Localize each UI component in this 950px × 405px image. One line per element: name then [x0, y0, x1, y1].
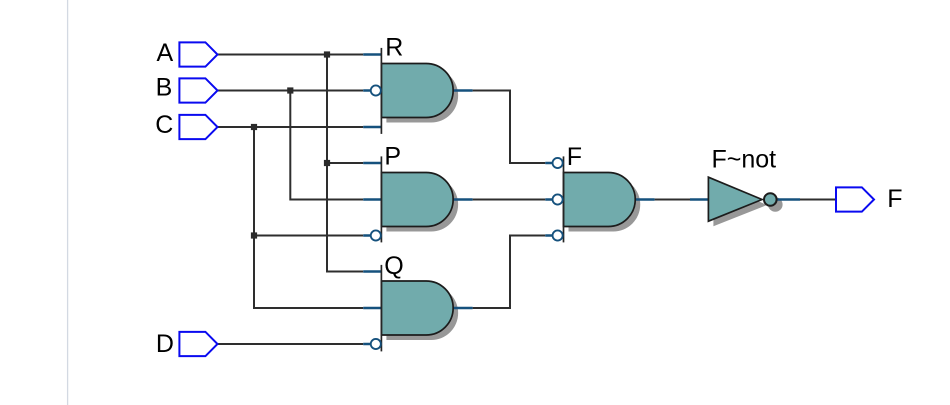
output pin F [836, 187, 874, 211]
port stub Q bot [363, 343, 381, 346]
gate F input bar [563, 156, 565, 242]
port stub F out [635, 198, 654, 201]
port stub P top [363, 162, 381, 165]
svg-text:F: F [887, 185, 902, 213]
wire stub A branch to P top [327, 162, 363, 164]
junction on wire C [251, 124, 257, 130]
svg-text:D: D [156, 330, 174, 358]
port stub F mid [545, 198, 563, 201]
bubble Q bot input [371, 339, 381, 349]
svg-text:Q: Q [384, 252, 403, 280]
shadow of gate F [569, 178, 641, 232]
wire C [218, 126, 364, 128]
wire A [218, 54, 364, 56]
wire stub C branch to P bot [254, 235, 363, 237]
port stub inverter out [777, 198, 800, 201]
svg-text:F~not: F~not [712, 146, 777, 174]
junction C-branch at P bot [251, 232, 257, 238]
port stub P mid [363, 198, 381, 201]
shadow of inverter [713, 182, 767, 226]
port stub R out [453, 89, 472, 92]
svg-text:P: P [384, 143, 401, 171]
wire R out to F top [473, 91, 546, 164]
port stub P out [453, 198, 472, 201]
port stub R bot [363, 126, 381, 129]
bubble F mid input [553, 194, 563, 204]
gate P input bar [380, 156, 382, 242]
wire C branch to P bot and Q mid [254, 127, 363, 308]
port stub F top [545, 162, 563, 165]
shadow of gate P [386, 178, 458, 232]
wire A branch to P top and Q top [327, 55, 363, 272]
bubble F bot input [553, 230, 563, 240]
svg-text:A: A [157, 39, 174, 67]
port stub R mid [363, 89, 381, 92]
bubble P bot input [371, 230, 381, 240]
and gate F body [564, 173, 636, 227]
and gate Q body [381, 281, 453, 335]
wire B [218, 90, 364, 92]
svg-text:C: C [155, 111, 173, 139]
junction on wire B [287, 87, 293, 93]
port stub Q top [363, 270, 381, 273]
wire D [218, 343, 364, 345]
bubble R mid input [371, 85, 381, 95]
input pin C [179, 115, 217, 139]
port stub inverter in [690, 198, 708, 201]
junction A-branch at P top [324, 160, 330, 166]
gate Q input bar [380, 265, 382, 352]
port stub R top [363, 53, 381, 56]
port stub P bot [363, 234, 381, 237]
port stub Q mid [363, 307, 381, 310]
shadow of gate Q [386, 286, 458, 340]
wire Q out to F bot [473, 236, 546, 309]
and gate R body [381, 64, 453, 118]
input pin A [179, 42, 217, 66]
wire F out to inverter [655, 199, 690, 201]
port stub Q out [453, 307, 472, 310]
shadow of inverter bubble [768, 197, 783, 212]
junction on wire A [324, 51, 330, 57]
svg-text:R: R [385, 34, 403, 62]
gate R input bar [380, 48, 382, 134]
svg-text:F: F [567, 143, 582, 171]
svg-text:B: B [156, 74, 173, 102]
wire P out to F mid [473, 199, 546, 201]
canvas border [67, 0, 69, 405]
wire B branch to P mid [290, 91, 363, 200]
bubble F top input [553, 158, 563, 168]
wire inverter out to pin F [800, 199, 836, 201]
inverter U1 triangle [708, 177, 762, 221]
input pin B [179, 78, 217, 102]
input pin D [179, 332, 217, 356]
and gate P body [381, 173, 453, 227]
inverter U1 bubble [764, 193, 777, 206]
shadow of gate R [386, 69, 458, 123]
port stub F bot [545, 234, 563, 237]
